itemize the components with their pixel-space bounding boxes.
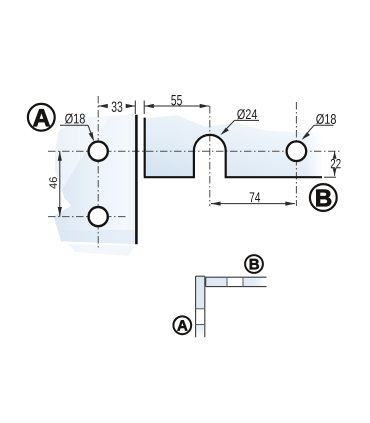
balloon A main view	[28, 104, 55, 131]
dimension 74	[211, 192, 295, 205]
left glass edge thick line	[135, 115, 138, 245]
right glass panel fill with notch cutout	[146, 113, 325, 179]
hole right Ø18	[287, 141, 307, 161]
balloon B detail view	[245, 255, 263, 273]
label Ø18 left with leader	[60, 113, 94, 141]
centerline horizontal through top holes	[48, 150, 341, 152]
dimension 46	[49, 151, 62, 216]
dimension 33	[98, 101, 135, 115]
dimension 55	[144, 95, 209, 114]
centerline vertical through notch	[209, 106, 211, 206]
dimension 22	[324, 151, 341, 177]
detail view vertical glass bar	[196, 276, 205, 337]
label Ø24 with leader	[220, 109, 259, 135]
label Ø18 right with leader	[302, 114, 336, 140]
left glass panel fill	[54, 114, 138, 256]
hole top-left Ø18	[89, 142, 108, 161]
right glass cutout outline	[144, 118, 322, 178]
centerline horizontal through lower left hole	[48, 216, 126, 218]
centerline vertical through left holes	[97, 96, 99, 250]
balloon A detail view	[173, 316, 191, 334]
balloon B main view	[310, 184, 337, 211]
detail view horizontal glass bar	[206, 277, 267, 286]
hole bottom-left Ø18	[89, 207, 108, 226]
centerline vertical through right hole	[295, 102, 297, 206]
